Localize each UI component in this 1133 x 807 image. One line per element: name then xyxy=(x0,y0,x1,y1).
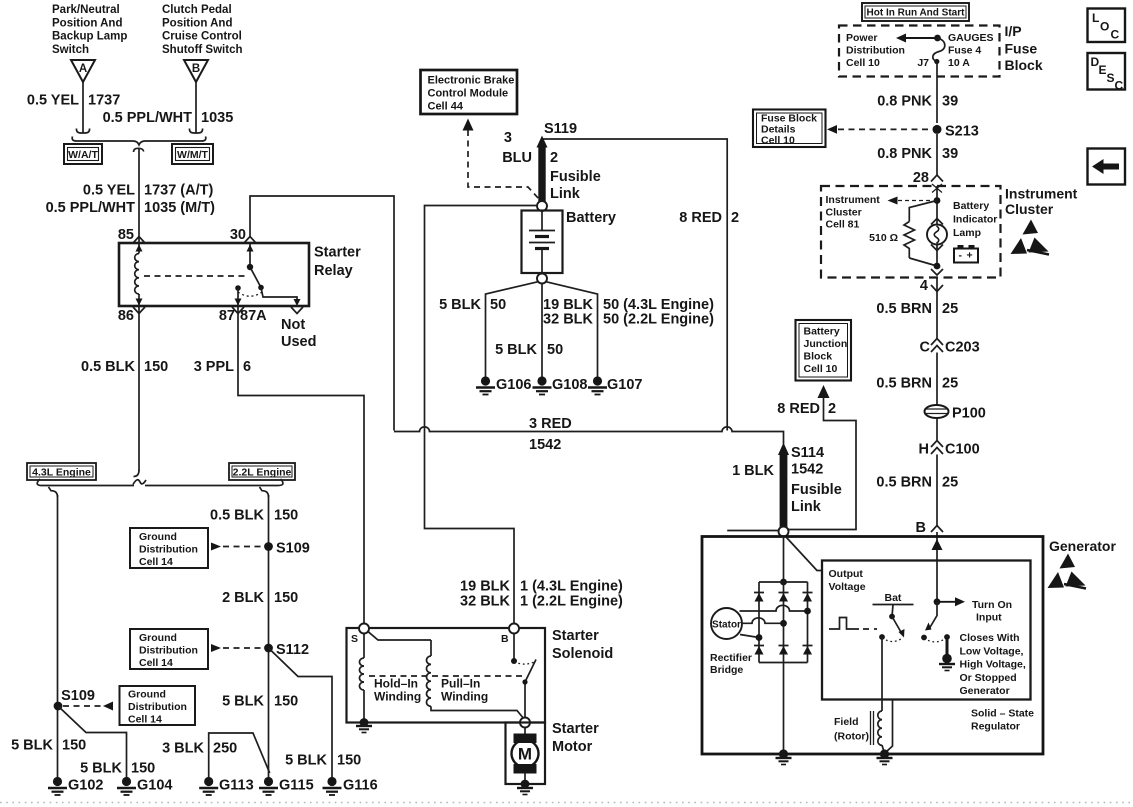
svg-text:250: 250 xyxy=(213,741,237,757)
svg-text:Indicator: Indicator xyxy=(953,214,997,226)
svg-text:C: C xyxy=(1111,28,1120,42)
svg-text:150: 150 xyxy=(274,694,298,710)
svg-text:25: 25 xyxy=(942,475,958,491)
svg-text:1 (4.3L Engine): 1 (4.3L Engine) xyxy=(520,579,623,595)
svg-text:0.8 PNK: 0.8 PNK xyxy=(877,146,932,162)
svg-text:Regulator: Regulator xyxy=(971,721,1020,733)
svg-text:Starter: Starter xyxy=(314,245,361,261)
svg-text:S119: S119 xyxy=(544,121,577,137)
svg-text:BLU: BLU xyxy=(502,150,532,166)
svg-text:Fuse: Fuse xyxy=(1005,41,1038,57)
svg-text:C100: C100 xyxy=(945,442,980,458)
svg-text:4.3L Engine: 4.3L Engine xyxy=(32,467,91,479)
svg-text:Cell 10: Cell 10 xyxy=(846,57,880,69)
svg-text:0.5 BRN: 0.5 BRN xyxy=(876,475,932,491)
svg-text:W/M/T: W/M/T xyxy=(177,149,208,161)
svg-text:S: S xyxy=(351,633,358,645)
svg-text:Solenoid: Solenoid xyxy=(552,646,613,662)
svg-text:Starter: Starter xyxy=(552,721,599,737)
svg-text:30: 30 xyxy=(230,227,246,243)
svg-text:Voltage: Voltage xyxy=(829,581,866,593)
svg-text:0.5 BLK: 0.5 BLK xyxy=(210,508,265,524)
svg-text:G113: G113 xyxy=(219,778,254,794)
svg-text:1542: 1542 xyxy=(529,437,561,453)
svg-text:0.5 YEL: 0.5 YEL xyxy=(83,183,135,199)
svg-text:Output: Output xyxy=(829,568,864,580)
svg-text:Fuse 4: Fuse 4 xyxy=(948,45,981,57)
svg-text:1 BLK: 1 BLK xyxy=(732,463,774,479)
svg-text:Link: Link xyxy=(791,499,822,515)
svg-text:0.5 BLK: 0.5 BLK xyxy=(81,359,136,375)
svg-text:3 BLK: 3 BLK xyxy=(162,741,204,757)
svg-text:Electronic Brake: Electronic Brake xyxy=(428,75,515,87)
svg-text:B: B xyxy=(916,520,926,536)
svg-text:P100: P100 xyxy=(952,406,986,422)
svg-text:3 PPL: 3 PPL xyxy=(194,359,234,375)
svg-text:Ground: Ground xyxy=(139,632,177,644)
svg-text:50: 50 xyxy=(490,297,506,313)
svg-text:2: 2 xyxy=(550,150,558,166)
svg-text:3 RED: 3 RED xyxy=(529,416,572,432)
svg-text:M: M xyxy=(518,745,532,764)
svg-text:Cruise Control: Cruise Control xyxy=(162,31,242,43)
svg-text:C: C xyxy=(1115,79,1124,93)
svg-text:86: 86 xyxy=(118,308,134,324)
svg-text:Or Stopped: Or Stopped xyxy=(960,672,1017,684)
svg-text:Battery: Battery xyxy=(566,210,616,226)
svg-text:G102: G102 xyxy=(68,778,103,794)
svg-text:Cluster: Cluster xyxy=(1005,201,1054,217)
svg-text:Turn On: Turn On xyxy=(972,599,1012,611)
svg-text:150: 150 xyxy=(337,753,361,769)
svg-text:High Voltage,: High Voltage, xyxy=(960,659,1026,671)
svg-text:Hot In Run And Start: Hot In Run And Start xyxy=(867,8,966,19)
svg-text:5 BLK: 5 BLK xyxy=(439,297,481,313)
svg-text:Motor: Motor xyxy=(552,739,593,755)
svg-text:19 BLK: 19 BLK xyxy=(460,579,510,595)
svg-text:Instrument: Instrument xyxy=(1005,186,1078,202)
svg-text:Control Module: Control Module xyxy=(428,88,509,100)
svg-text:Starter: Starter xyxy=(552,628,599,644)
svg-text:Ground: Ground xyxy=(128,689,166,701)
svg-text:50 (2.2L Engine): 50 (2.2L Engine) xyxy=(603,312,714,328)
svg-text:(Rotor): (Rotor) xyxy=(834,731,869,743)
svg-text:5 BLK: 5 BLK xyxy=(285,753,327,769)
svg-text:Block: Block xyxy=(1005,57,1043,73)
svg-text:S114: S114 xyxy=(791,445,824,461)
svg-text:2: 2 xyxy=(731,210,739,226)
svg-text:0.8 PNK: 0.8 PNK xyxy=(877,94,932,110)
svg-text:28: 28 xyxy=(913,170,929,186)
svg-text:5 BLK: 5 BLK xyxy=(80,761,122,777)
svg-text:Field: Field xyxy=(834,716,859,728)
svg-text:Winding: Winding xyxy=(441,690,488,704)
svg-text:Generator: Generator xyxy=(1049,538,1116,554)
svg-text:10 A: 10 A xyxy=(948,57,970,69)
svg-text:Input: Input xyxy=(976,612,1002,624)
svg-text:5 BLK: 5 BLK xyxy=(11,738,53,754)
svg-text:1737: 1737 xyxy=(88,93,120,109)
svg-text:150: 150 xyxy=(131,761,155,777)
svg-text:Lamp: Lamp xyxy=(953,227,981,239)
svg-text:1035: 1035 xyxy=(201,110,233,126)
svg-text:Position And: Position And xyxy=(162,17,232,29)
svg-text:Distribution: Distribution xyxy=(139,544,198,556)
svg-text:+: + xyxy=(967,250,973,262)
svg-text:510 Ω: 510 Ω xyxy=(869,232,898,244)
svg-text:150: 150 xyxy=(274,590,298,606)
svg-text:32 BLK: 32 BLK xyxy=(543,312,593,328)
svg-text:87: 87 xyxy=(219,308,235,324)
svg-text:85: 85 xyxy=(118,227,134,243)
svg-text:J7: J7 xyxy=(917,57,929,69)
svg-text:Bridge: Bridge xyxy=(710,664,743,676)
svg-text:Winding: Winding xyxy=(374,690,421,704)
svg-text:Not: Not xyxy=(281,317,305,333)
svg-text:B: B xyxy=(192,63,200,75)
svg-text:8 RED: 8 RED xyxy=(679,210,722,226)
svg-text:Cell 44: Cell 44 xyxy=(428,101,464,113)
svg-text:Distribution: Distribution xyxy=(846,45,905,57)
svg-text:G115: G115 xyxy=(279,778,314,794)
svg-text:G116: G116 xyxy=(343,778,378,794)
svg-text:2 BLK: 2 BLK xyxy=(222,590,264,606)
svg-text:Switch: Switch xyxy=(52,44,89,56)
svg-text:I/P: I/P xyxy=(1005,23,1022,39)
svg-text:5 BLK: 5 BLK xyxy=(495,342,537,358)
svg-text:Used: Used xyxy=(281,334,316,350)
svg-text:2: 2 xyxy=(828,401,836,417)
svg-text:W/A/T: W/A/T xyxy=(68,149,98,161)
svg-text:E: E xyxy=(1099,63,1107,77)
svg-text:1737 (A/T): 1737 (A/T) xyxy=(144,183,213,199)
svg-text:G108: G108 xyxy=(552,377,587,393)
svg-text:Rectifier: Rectifier xyxy=(710,652,752,664)
svg-text:Stator: Stator xyxy=(712,620,741,631)
svg-text:Bat: Bat xyxy=(885,592,902,604)
svg-text:G106: G106 xyxy=(496,377,531,393)
svg-text:Instrument: Instrument xyxy=(826,194,881,206)
svg-text:0.5 BRN: 0.5 BRN xyxy=(876,301,932,317)
svg-text:Park/Neutral: Park/Neutral xyxy=(52,4,120,16)
svg-text:150: 150 xyxy=(144,359,168,375)
svg-text:-: - xyxy=(959,250,963,262)
svg-text:87A: 87A xyxy=(240,308,267,324)
svg-text:2.2L Engine: 2.2L Engine xyxy=(233,467,292,479)
svg-text:Block: Block xyxy=(804,351,833,363)
svg-text:Hold–In: Hold–In xyxy=(374,677,418,691)
svg-text:Closes With: Closes With xyxy=(960,632,1020,644)
svg-text:Backup Lamp: Backup Lamp xyxy=(52,31,127,43)
svg-text:Clutch Pedal: Clutch Pedal xyxy=(162,4,232,16)
svg-text:Position And: Position And xyxy=(52,17,122,29)
svg-text:Battery: Battery xyxy=(953,200,989,212)
svg-text:Shutoff Switch: Shutoff Switch xyxy=(162,44,243,56)
svg-text:39: 39 xyxy=(942,94,958,110)
svg-text:O: O xyxy=(1100,20,1109,34)
svg-text:150: 150 xyxy=(62,738,86,754)
svg-text:1542: 1542 xyxy=(791,462,823,478)
svg-text:4: 4 xyxy=(920,278,928,294)
svg-text:Cell 14: Cell 14 xyxy=(139,556,173,568)
svg-text:Generator: Generator xyxy=(960,685,1010,697)
svg-text:50: 50 xyxy=(547,342,563,358)
svg-text:Link: Link xyxy=(550,186,581,202)
svg-text:S112: S112 xyxy=(276,642,309,658)
svg-text:Distribution: Distribution xyxy=(139,645,198,657)
svg-text:C203: C203 xyxy=(945,340,980,356)
svg-text:Relay: Relay xyxy=(314,263,353,279)
svg-text:Cell 81: Cell 81 xyxy=(826,219,860,231)
svg-text:3: 3 xyxy=(504,130,512,146)
svg-text:39: 39 xyxy=(942,146,958,162)
svg-text:1 (2.2L Engine): 1 (2.2L Engine) xyxy=(520,594,623,610)
svg-text:S213: S213 xyxy=(945,124,979,140)
svg-text:5 BLK: 5 BLK xyxy=(222,694,264,710)
svg-text:S109: S109 xyxy=(61,688,95,704)
svg-text:C: C xyxy=(920,340,931,356)
svg-text:Cell 10: Cell 10 xyxy=(804,363,838,375)
svg-text:8 RED: 8 RED xyxy=(777,401,820,417)
svg-text:Ground: Ground xyxy=(139,531,177,543)
svg-text:S109: S109 xyxy=(276,541,310,557)
svg-text:32 BLK: 32 BLK xyxy=(460,594,510,610)
svg-text:Battery: Battery xyxy=(804,326,840,338)
svg-text:GAUGES: GAUGES xyxy=(948,32,994,44)
svg-text:150: 150 xyxy=(274,508,298,524)
svg-text:Fusible: Fusible xyxy=(791,482,842,498)
svg-text:0.5 PPL/WHT: 0.5 PPL/WHT xyxy=(103,110,193,126)
svg-text:0.5 YEL: 0.5 YEL xyxy=(27,93,79,109)
svg-text:Junction: Junction xyxy=(804,338,848,350)
svg-text:0.5 PPL/WHT: 0.5 PPL/WHT xyxy=(46,200,136,216)
svg-text:Cell 14: Cell 14 xyxy=(139,657,173,669)
svg-text:Solid – State: Solid – State xyxy=(971,708,1034,720)
svg-text:25: 25 xyxy=(942,301,958,317)
svg-text:B: B xyxy=(501,633,509,645)
svg-text:Cluster: Cluster xyxy=(826,206,862,218)
svg-text:1035 (M/T): 1035 (M/T) xyxy=(144,200,215,216)
svg-text:G107: G107 xyxy=(607,377,642,393)
svg-text:6: 6 xyxy=(243,359,251,375)
svg-text:Power: Power xyxy=(846,32,878,44)
svg-text:Low Voltage,: Low Voltage, xyxy=(960,645,1024,657)
svg-text:0.5 BRN: 0.5 BRN xyxy=(876,376,932,392)
svg-text:Fusible: Fusible xyxy=(550,169,601,185)
svg-text:G104: G104 xyxy=(137,778,172,794)
svg-text:Cell 10: Cell 10 xyxy=(761,135,795,147)
svg-text:25: 25 xyxy=(942,376,958,392)
svg-text:S: S xyxy=(1107,71,1115,85)
svg-text:Distribution: Distribution xyxy=(128,701,187,713)
svg-text:L: L xyxy=(1092,11,1099,25)
svg-text:A: A xyxy=(79,63,87,75)
svg-text:H: H xyxy=(919,442,929,458)
svg-text:Cell 14: Cell 14 xyxy=(128,714,162,726)
svg-text:Pull–In: Pull–In xyxy=(441,677,480,691)
